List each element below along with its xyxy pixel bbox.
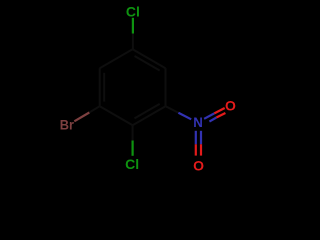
bond C1-Cl(top), chlorine half xyxy=(132,18,134,34)
double bond N=O(upper right), main line oxygen half xyxy=(214,108,224,113)
double bond N=O(bottom), line 1 oxygen half xyxy=(195,144,197,155)
double bond N=O(upper right), inner line nitrogen half xyxy=(209,118,216,122)
svg-text:Br: Br xyxy=(60,117,75,133)
bond C4-C5 xyxy=(100,106,133,125)
double bond N=O(bottom), line 2 oxygen half xyxy=(200,144,202,155)
bond C4-Cl(bottom), chlorine half xyxy=(132,141,134,156)
double bond inner line C1-C2 xyxy=(135,56,160,71)
svg-text:O: O xyxy=(225,97,236,113)
double bond N=O(upper right), inner line oxygen half xyxy=(216,113,225,118)
bond C1-Cl(top), carbon half xyxy=(132,34,134,50)
bond C5-C6 xyxy=(99,68,101,106)
bond C6-C1 xyxy=(100,49,133,68)
bond C3-N, carbon half xyxy=(166,106,179,113)
double bond N=O(bottom), line 2 nitrogen half xyxy=(200,131,202,145)
double bond N=O(bottom), line 1 nitrogen half xyxy=(195,131,197,145)
bond C3-N, nitrogen half xyxy=(178,113,191,120)
double bond inner line C5-C6 xyxy=(103,73,105,102)
svg-text:O: O xyxy=(193,157,204,173)
double bond inner line C3-C4 xyxy=(135,104,160,119)
benzene ring C1-C6 xyxy=(100,49,166,125)
double bond N=O(upper right), main line nitrogen half xyxy=(204,113,214,118)
svg-text:Cl: Cl xyxy=(125,156,139,172)
svg-text:Cl: Cl xyxy=(126,4,140,20)
bond C4-Cl(bottom), carbon half xyxy=(132,125,134,140)
bond C1-C2 xyxy=(133,49,166,68)
bond C5-Br, bromine half xyxy=(74,113,89,122)
bond C5-Br, carbon half xyxy=(89,106,99,112)
svg-text:N: N xyxy=(193,114,203,130)
bond C3-C4 xyxy=(133,106,166,125)
bond C2-C3 xyxy=(165,68,167,106)
